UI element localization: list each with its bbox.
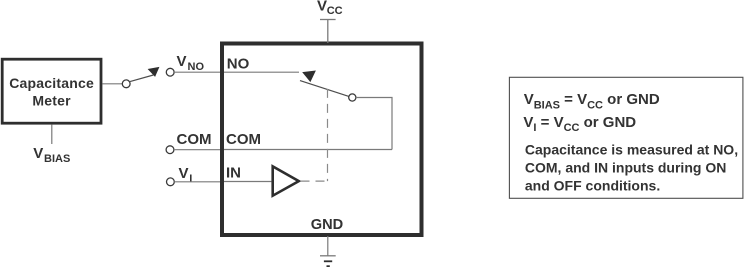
wire IN internal [224,181,271,183]
switch S2 arrow [302,70,317,83]
svg-text:NO: NO [188,61,205,73]
wire VI to IN pin [174,181,220,183]
wire switch throw to COM net [356,98,392,150]
annotation box [509,77,743,198]
DUT box U1 [222,44,422,236]
switch S1 blade [130,75,153,82]
wire COM internal [224,149,392,151]
svg-text:V: V [177,53,187,70]
switch S1 arrow [148,67,161,78]
capacitance meter box [2,59,101,123]
svg-text:V: V [179,165,189,182]
svg-text:IN: IN [226,165,241,182]
node COM terminal [166,146,174,154]
wire VNO to NO pin [174,71,220,73]
svg-text:Capacitance: Capacitance [9,75,94,91]
node VNO terminal [166,68,174,76]
svg-text:Meter: Meter [32,93,71,109]
svg-text:and OFF conditions.: and OFF conditions. [525,177,660,193]
svg-text:I: I [189,173,192,185]
wire meter to switch [102,83,122,85]
wire NO internal [224,71,299,73]
svg-text:COM: COM [226,131,261,148]
svg-text:GND: GND [311,217,343,233]
node VCC terminal [320,19,336,21]
svg-text:Capacitance is measured at NO,: Capacitance is measured at NO, [525,142,738,158]
svg-text:V: V [317,0,327,14]
dashed control line horizontal [301,180,328,182]
node VI terminal [167,178,175,186]
switch S2 blade [300,81,349,97]
svg-text:BIAS: BIAS [44,153,70,165]
ground [320,255,336,257]
svg-text:COM, and IN inputs during ON: COM, and IN inputs during ON [525,159,726,175]
switch S2 throw circle [349,94,356,101]
svg-text:NO: NO [227,55,250,72]
svg-text:V: V [33,145,43,162]
node VBIAS [51,125,53,144]
wire COM external [174,149,220,151]
svg-text:COM: COM [177,131,212,148]
wire GND stem [327,236,329,256]
svg-text:CC: CC [327,5,343,17]
buffer U2 [273,166,299,195]
dashed control line vertical [327,89,329,181]
switch S1 pole circle [122,80,130,88]
